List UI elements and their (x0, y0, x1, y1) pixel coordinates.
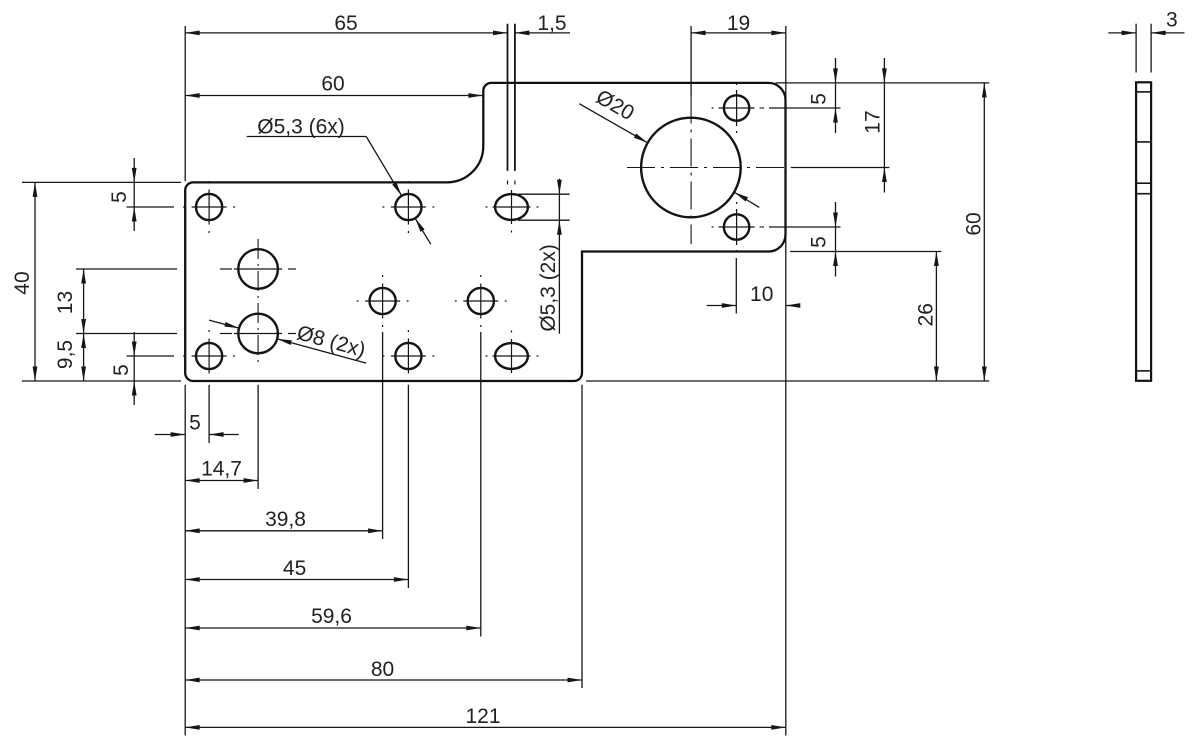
extension line col x=480 below (480, 332, 482, 637)
hole J (8) lower (238, 314, 278, 354)
extension line col x=382 below (382, 332, 384, 539)
dimension 60 top line (185, 95, 483, 97)
dimension 5 bottom-left line (133, 332, 135, 405)
dimension 40 line (34, 182, 36, 381)
hole K (20) large bore (641, 118, 741, 218)
svg-text:10: 10 (750, 283, 773, 306)
svg-text:80: 80 (371, 658, 394, 681)
svg-text:5: 5 (808, 93, 831, 105)
hole E (5.3) middle-left (370, 288, 396, 314)
svg-text:26: 26 (915, 303, 938, 326)
dimension 39,8 line (185, 530, 382, 532)
dimension 1,5 line (515, 32, 570, 34)
callout diameter 20 leader (579, 104, 647, 143)
side view extension line left (1135, 24, 1137, 73)
extension line col x=209 below (208, 385, 210, 443)
dimension 14,7 line (185, 480, 258, 482)
svg-text:5: 5 (189, 411, 201, 434)
extension line bottom edge right (586, 380, 989, 382)
extension line x=691 column (690, 26, 692, 96)
dimension 5 top-left line (133, 158, 135, 231)
hole B (5.3) top-mid (395, 194, 421, 220)
hole G (5.3) flange-top (724, 95, 749, 120)
svg-text:Ø5,3 (6x): Ø5,3 (6x) (257, 116, 345, 139)
extension line left edge below (184, 385, 186, 736)
dimension 9,5 line (83, 334, 85, 382)
svg-text:5: 5 (108, 191, 131, 203)
side view edge line y=142 (1136, 141, 1151, 143)
bend line dots (507, 181, 509, 185)
extension line right edge x=785.8 (785, 26, 787, 736)
dimension 19 line (691, 32, 786, 34)
svg-text:39,8: 39,8 (265, 508, 306, 531)
extension line hole J center (76, 333, 177, 335)
dimension 60 right line (983, 83, 985, 381)
svg-text:40: 40 (11, 271, 34, 294)
side view edge line y=183 (1136, 182, 1151, 184)
hole K vertical centerline (690, 96, 692, 245)
svg-text:121: 121 (465, 705, 500, 728)
callout diameter 5,3 (6x) leader (366, 137, 402, 196)
dimension 5 right-mid line (835, 202, 837, 277)
side view edge line y=371 (1136, 370, 1151, 372)
svg-text:19: 19 (727, 12, 750, 35)
svg-text:1,5: 1,5 (537, 12, 566, 35)
hole K horizontal centerline (627, 167, 786, 169)
dimension 5 bottom line (155, 434, 186, 436)
hole H (5.3) flange-bottom (724, 214, 749, 239)
hole C (5.3) bottom-left (196, 343, 222, 369)
extension line bottom edge left (22, 380, 181, 382)
dimension 3 line (1108, 32, 1136, 34)
hole I (8) upper (238, 249, 278, 289)
plate outline (front view) (185, 83, 785, 381)
svg-text:60: 60 (321, 73, 344, 96)
svg-text:14,7: 14,7 (201, 458, 242, 481)
extension line hole H center (769, 226, 841, 228)
svg-text:5: 5 (110, 364, 133, 376)
extension line hole G center (769, 107, 841, 109)
dimension 17 line (883, 58, 885, 193)
callout diameter 5,3 (2x) extension lines (518, 193, 570, 195)
extension line col x=408 below (407, 385, 409, 588)
side view extension line right (1150, 24, 1152, 73)
bend line left (507, 24, 509, 171)
extension line flange bottom edge (790, 251, 941, 253)
svg-text:17: 17 (862, 110, 885, 133)
extension line hole K center right (791, 167, 890, 169)
extension line col x=258 below (257, 385, 259, 489)
dimension 13 line (83, 269, 85, 334)
side view edge line y=92 (1136, 91, 1151, 93)
dimension 45 line (185, 579, 408, 581)
svg-text:13: 13 (54, 291, 77, 314)
side view outline (1136, 82, 1151, 381)
svg-text:Ø5,3 (2x): Ø5,3 (2x) (537, 244, 560, 332)
svg-text:59,6: 59,6 (311, 605, 352, 628)
hole I horizontal centerline (220, 268, 232, 270)
dimension 10 line (707, 305, 737, 307)
hole J horizontal centerline (220, 333, 232, 335)
hole L (5.3) elliptical top (495, 194, 528, 220)
dimension 80 line (185, 679, 582, 681)
hole I-J vertical centerline (257, 239, 259, 367)
callout diameter 8 (2x) leader (209, 320, 239, 328)
extension line hole I center (76, 268, 177, 270)
hole D (5.3) bottom-mid (395, 343, 421, 369)
extension line bottom hole row (127, 355, 175, 357)
side view edge line y=194 (1136, 193, 1151, 195)
dimension 121 line (185, 726, 786, 728)
svg-text:9,5: 9,5 (54, 340, 77, 369)
extension line top edge left (22, 181, 181, 183)
dimension 65 line (185, 32, 507, 34)
callout diameter 5,3 (6x) underline (247, 136, 367, 138)
svg-text:45: 45 (283, 557, 306, 580)
dimension 59,6 line (185, 627, 481, 629)
hole F (5.3) middle-right (468, 288, 494, 314)
svg-text:65: 65 (334, 12, 357, 35)
bend line right (514, 24, 516, 171)
hole A (5.3) top-left (196, 194, 222, 220)
dimension 5 right-top line (835, 58, 837, 133)
extension line top edge right (776, 82, 990, 84)
svg-text:5: 5 (808, 236, 831, 248)
svg-text:3: 3 (1166, 9, 1178, 32)
callout diameter 5,3 (2x) dimension line (558, 179, 560, 334)
extension line top hole row (127, 206, 175, 208)
hole M (5.3) elliptical bottom (495, 343, 528, 369)
svg-text:60: 60 (962, 212, 985, 235)
extension line col x=736 below flange (735, 258, 737, 314)
extension line left edge (184, 26, 186, 181)
dimension 26 line (935, 252, 937, 382)
extension line step edge below (581, 385, 583, 688)
